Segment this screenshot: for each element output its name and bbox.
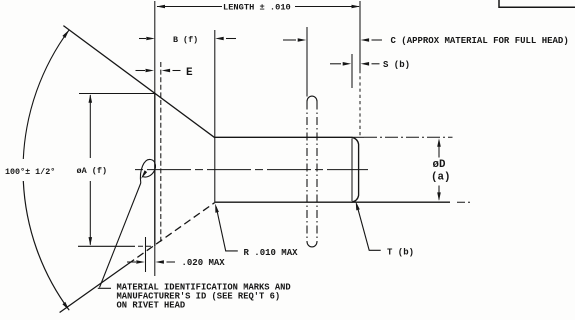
arc 100-degree angular dimension, lower segment (23, 181, 69, 310)
B arrow right (215, 37, 224, 41)
E reference line (dashed vertical) (160, 62, 162, 243)
S arrow left (343, 62, 352, 66)
E arrow left (146, 69, 155, 73)
D arrow down (437, 192, 441, 201)
head face extension line up (154, 1, 156, 93)
dimension C right dash (372, 39, 383, 41)
grip mark slot right side (316, 102, 318, 242)
shank top extension solid (352, 136, 365, 138)
dimension D line upper (438, 141, 440, 158)
shank bottom dash tail (457, 201, 470, 203)
arc arrowhead bottom (62, 302, 69, 310)
dimension A extension bottom dashes (138, 245, 152, 247)
head face extension line down (for .020) (154, 246, 156, 276)
svg-text:B (f): B (f) (173, 35, 198, 45)
LENGTH arrow left (157, 5, 166, 9)
A arrow down (89, 237, 93, 246)
svg-text:øD: øD (433, 159, 446, 171)
shank outline bottom (215, 201, 450, 203)
.020 arrow right (155, 260, 164, 264)
angle leg bottom solid part (60, 264, 128, 313)
dimension S right dash (372, 63, 380, 65)
svg-text:T (b): T (b) (387, 248, 414, 258)
dimension C left dash (283, 39, 296, 41)
grip mark slot left side (306, 102, 308, 242)
leader material note line (100, 183, 141, 288)
svg-text:100°± 1/2°: 100°± 1/2° (5, 167, 55, 177)
.020 arrow left (136, 260, 145, 264)
grip slot bottom cap (307, 242, 317, 247)
E arrow right (162, 69, 171, 73)
dimension E right dash (173, 70, 181, 72)
dimension A line upper (89, 95, 91, 158)
end extension line upper (359, 1, 361, 70)
cone bottom edge dashed (128, 203, 215, 265)
B arrow left (146, 37, 155, 41)
svg-text:S (b): S (b) (383, 60, 410, 70)
svg-text:LENGTH ± .010: LENGTH ± .010 (223, 2, 291, 12)
dimension B left lead (139, 38, 146, 40)
arc 100-degree angular dimension, upper segment (23, 30, 69, 159)
grip slot top cap (307, 96, 317, 101)
cone top edge and angle leg (63, 26, 214, 138)
shank outline top (215, 136, 352, 138)
leader T (b) (357, 205, 381, 251)
svg-text:ON RIVET HEAD: ON RIVET HEAD (117, 301, 186, 311)
svg-text:R .010 MAX: R .010 MAX (244, 248, 299, 258)
corner tangent line across shank (351, 139, 353, 202)
dimension D line lower (438, 186, 440, 200)
dimension LENGTH line left part (157, 6, 222, 8)
svg-text:(a): (a) (431, 172, 450, 184)
T leader arrowhead (356, 201, 360, 210)
S arrow right (361, 62, 370, 66)
R leader arrowhead (215, 204, 219, 213)
LENGTH arrow right (352, 5, 361, 9)
head face outline (154, 93, 156, 246)
C arrow right (361, 38, 370, 42)
dimension B right dash (226, 38, 236, 40)
junction extension line (B right / R) (214, 30, 216, 202)
grip slot extension line up (306, 27, 308, 97)
shank top extension dash-dot (364, 136, 453, 138)
.020 left extension line (145, 237, 147, 272)
svg-text:.020 MAX: .020 MAX (182, 258, 226, 268)
svg-text:C (APPROX MATERIAL FOR FULL HE: C (APPROX MATERIAL FOR FULL HEAD) (391, 36, 569, 46)
dimension A extension bottom solid (78, 245, 135, 247)
leader material note foot (98, 287, 111, 289)
leader R .010 MAX (216, 207, 238, 251)
dimension .020 left lead (127, 261, 136, 263)
dimension A extension top (79, 93, 156, 95)
svg-text:E: E (186, 67, 193, 79)
dimension A line lower (89, 181, 91, 245)
material leader arrowhead (141, 170, 147, 179)
dimension S left dash (330, 63, 341, 65)
arc arrowhead top (62, 30, 69, 38)
title block corner (top right border) (499, 0, 575, 7)
dimension E left lead (136, 70, 146, 72)
corner tangent extension line upper (351, 54, 353, 88)
svg-text:øA (f): øA (f) (77, 166, 108, 176)
D arrow up (437, 138, 441, 147)
end extension line dashes to shank (359, 70, 361, 137)
dimension LENGTH line right part (295, 6, 359, 8)
dimension .020 right dash (167, 261, 176, 263)
leader material note curl (140, 159, 155, 183)
end face with corner radii (352, 137, 359, 202)
centerline (135, 169, 368, 171)
C arrow left (298, 38, 307, 42)
A arrow up (89, 94, 93, 103)
